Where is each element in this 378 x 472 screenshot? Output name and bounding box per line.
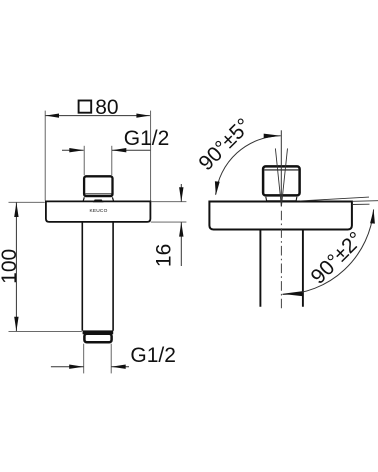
dimension G1/2 top: label <box>124 127 170 150</box>
shower arm pipe (front view) <box>82 222 113 331</box>
angle arc 90+-2 <box>283 209 374 294</box>
tenon base gap (black trapezoid) <box>93 200 104 203</box>
svg-text:80: 80 <box>95 96 118 119</box>
dimension square-80: right arrowhead <box>136 114 150 118</box>
ceiling plate (side view) <box>209 202 352 230</box>
dimension 16: top extension line <box>151 201 187 203</box>
svg-text:G1/2: G1/2 <box>124 127 170 150</box>
dimension G1/2 top: extension line right <box>111 146 113 175</box>
dimension 16: dimension line segments <box>180 184 182 266</box>
svg-text:G1/2: G1/2 <box>130 344 176 367</box>
dimension 100: top arrowhead <box>14 203 18 218</box>
pipe end dark band <box>83 330 114 334</box>
dimension square-80: left arrowhead <box>46 114 60 118</box>
tolerance fan line left (+5deg) <box>275 148 281 206</box>
dimension G1/2 top: left arrowhead <box>69 148 84 152</box>
svg-text:16: 16 <box>152 244 175 267</box>
dimension G1/2 bottom: label <box>130 344 176 367</box>
thread tenon (side view) <box>263 166 300 200</box>
dimension G1/2 top: dimension line <box>62 149 150 151</box>
G1/2 thread tenon (front view) <box>83 176 114 201</box>
svg-text:100: 100 <box>0 249 21 284</box>
arc 90+-5: lower-left arrowhead <box>215 181 220 195</box>
dimension G1/2 bottom: extension line right <box>110 344 112 374</box>
arc 90+-2: bottom arrowhead <box>282 291 302 296</box>
dimension 100: bottom extension line <box>9 330 82 332</box>
tolerance fan line right (-5deg) <box>281 148 287 206</box>
dimension G1/2 bottom: right arrowhead <box>111 365 126 369</box>
svg-text:KEUCO: KEUCO <box>89 208 107 214</box>
dimension G1/2 bottom: extension line left <box>83 344 85 374</box>
horizontal reference fan upper (-2deg) <box>300 197 369 201</box>
dimension 16: top arrowhead <box>179 187 183 202</box>
dimension G1/2 top: extension line left <box>83 146 85 175</box>
angle arc 90+-5 <box>216 136 281 195</box>
horizontal reference fan lower (+2deg) <box>352 203 369 205</box>
arc 90+-5: top arrowhead <box>264 134 281 139</box>
end nut (front view) <box>84 334 111 343</box>
dimension square-80: extension line left <box>44 111 46 201</box>
ceiling plate (front view) <box>46 201 150 222</box>
label 90+-2 <box>307 228 368 289</box>
dimension 100: value 100 <box>0 249 21 284</box>
arc 90+-2: right arrowhead <box>370 209 375 223</box>
pipe (side view) <box>260 230 303 307</box>
dimension 100: dimension line <box>15 203 17 332</box>
dimension 16: value 16 <box>152 244 175 267</box>
dimension 16: bottom extension line <box>151 221 187 223</box>
dimension square-80: extension line right <box>150 111 152 201</box>
dimension G1/2 top: right arrowhead <box>112 148 127 152</box>
horizontal reference fan middle <box>352 200 378 203</box>
dimension 100: bottom arrowhead <box>14 317 18 332</box>
centerline (dash-dot) <box>280 211 282 309</box>
dimension 100: top extension line <box>9 201 45 203</box>
dimension G1/2 bottom: left arrowhead <box>69 365 84 369</box>
dimension G1/2 bottom: dimension line <box>51 366 129 368</box>
vertical reference line (90 deg) <box>280 130 282 206</box>
label 90+-5 <box>194 114 255 175</box>
dimension square-80: value 80 <box>95 96 118 119</box>
dimension square-80: dimension line <box>46 115 150 117</box>
dimension square-80: square symbol <box>79 101 92 113</box>
KEUCO logo text <box>89 208 107 214</box>
dimension 16: bottom arrowhead <box>179 222 183 237</box>
